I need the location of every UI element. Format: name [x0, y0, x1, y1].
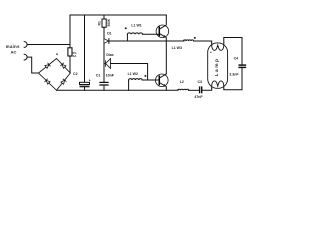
wire fuse column lower to bridge right vertex	[69, 56, 71, 73]
wire W2 riser from bottom rail	[128, 80, 130, 90]
inductor L1 W1	[127, 33, 142, 34]
bridge rectifier edges	[39, 59, 71, 91]
transistor Q2	[156, 74, 169, 91]
fuse F1	[68, 48, 72, 56]
wire C2 branch from top rail	[84, 15, 86, 82]
diode B1a top-left	[45, 63, 50, 68]
svg-text:10nF: 10nF	[106, 74, 115, 78]
capacitor C2 plus plate	[80, 82, 90, 84]
wire C4 bottom to lamp pin3	[224, 68, 242, 90]
svg-text:Lamp: Lamp	[214, 58, 220, 77]
winding L1 W3 polarity dot	[194, 37, 196, 39]
svg-text:C2: C2	[73, 72, 78, 76]
wire mains neutral to bridge left vertex	[27, 57, 38, 73]
diode B1d bottom-right	[61, 79, 66, 84]
capacitor C3	[200, 87, 202, 93]
wire C3 to lamp pin4	[202, 88, 212, 90]
wire W1 riser	[126, 34, 128, 41]
wire top rail	[70, 14, 166, 16]
wire bottom rail	[57, 89, 179, 91]
wire mains live to fuse column	[27, 44, 70, 46]
svg-text:C1: C1	[96, 74, 101, 78]
wire W1 to Q1 base	[143, 33, 160, 35]
svg-text:3.3nF: 3.3nF	[229, 73, 239, 77]
winding L1 W1 polarity dot	[125, 27, 127, 29]
lamp filament top	[212, 43, 224, 50]
capacitor C1 top plate	[100, 81, 108, 83]
diac K1	[104, 59, 111, 69]
svg-text:Diac: Diac	[106, 53, 113, 57]
wire lamp pin2 to C4 top	[224, 38, 242, 65]
wire W2 to Q2 base	[142, 79, 159, 81]
svg-text:L1 W2: L1 W2	[128, 72, 138, 76]
wire half-bridge midpoint vertical	[165, 41, 167, 74]
wire W3 to lamp pin1	[194, 41, 212, 43]
wire midpoint horizontal (D1 cathode to lamp)	[109, 40, 184, 42]
transistor Q1	[156, 15, 169, 41]
wire L2 to C3	[189, 89, 200, 91]
lamp tube	[208, 43, 228, 88]
lamp filament mark	[210, 52, 211, 53]
node mains terminal N	[24, 54, 27, 60]
svg-text:1A: 1A	[73, 54, 78, 58]
wire fuse column upper	[69, 15, 71, 48]
diode B1b top-right	[61, 63, 66, 68]
capacitor C4 bottom plate	[239, 66, 245, 68]
capacitor C2 minus plate	[80, 86, 90, 88]
wire C1 to bottom rail	[103, 85, 105, 90]
label ~ at bridge top	[56, 53, 58, 55]
wire R1 branch from top rail	[103, 15, 105, 19]
diode B1c bottom-left	[45, 79, 50, 84]
svg-text:L2: L2	[180, 80, 184, 84]
winding L1 W2 polarity dot	[144, 75, 146, 77]
capacitor C4 top plate	[239, 64, 245, 66]
svg-text:D1: D1	[107, 31, 111, 35]
wire C2 to bottom rail	[84, 87, 86, 90]
svg-text:L1 W1: L1 W1	[131, 23, 141, 27]
svg-text:L1 W3: L1 W3	[172, 46, 182, 50]
lamp filament bottom	[212, 81, 224, 88]
svg-text:560K: 560K	[107, 18, 111, 26]
svg-text:AC: AC	[11, 50, 17, 55]
resistor R1	[102, 19, 106, 27]
node mains terminal L	[24, 42, 27, 48]
diode D1	[104, 39, 109, 44]
capacitor C1 bottom plate	[100, 84, 108, 86]
inductor L2	[178, 89, 189, 90]
svg-text:+: +	[89, 78, 91, 82]
wire R1 to D1 node	[103, 27, 105, 41]
wire diac to Q2 base node	[111, 64, 148, 81]
wire D1 node down to diac and C1	[103, 41, 105, 82]
svg-text:C3: C3	[198, 80, 203, 84]
inductor L1 W3	[184, 40, 194, 41]
inductor L1 W2	[129, 79, 143, 80]
svg-text:mains: mains	[6, 44, 20, 49]
svg-text:R1: R1	[97, 21, 101, 25]
svg-text:47nF: 47nF	[194, 95, 203, 99]
svg-text:C4: C4	[234, 56, 239, 60]
